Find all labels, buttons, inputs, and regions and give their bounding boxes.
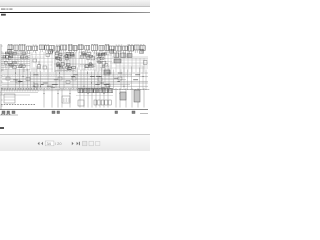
svg-text:/ 20: / 20 (55, 141, 62, 146)
